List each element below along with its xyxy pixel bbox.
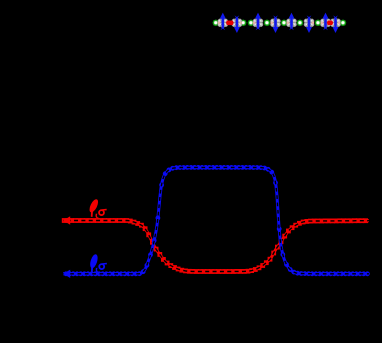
spin up arrow x=326 — [323, 13, 329, 31]
atom H green x=243 — [240, 20, 247, 27]
atomic spin chain illustration — [213, 13, 347, 33]
gray atom cluster x=309 — [304, 18, 314, 28]
black dashed overlay on red — [63, 221, 369, 272]
curve label rho_sigma (red, spin up density) — [88, 198, 107, 219]
red bond/arrow marker x=330 — [327, 21, 333, 26]
atom H green x=267 — [264, 20, 271, 27]
spin up arrow x=292 — [289, 13, 295, 31]
left arrowhead blue — [63, 270, 70, 278]
spin up arrow x=258 — [255, 13, 261, 31]
spin down arrow x=336 — [333, 15, 339, 33]
spin down arrow x=237 — [234, 15, 240, 33]
atom H green x=251 — [248, 20, 255, 27]
left arrowhead red — [63, 216, 70, 224]
gray atom cluster x=223 — [218, 18, 228, 28]
spin down arrow x=276 — [273, 15, 279, 33]
atom H green x=216 — [213, 20, 220, 27]
atom H green x=300 — [297, 20, 304, 27]
gray atom cluster x=336 — [330, 18, 340, 28]
gray atom cluster x=258 — [253, 18, 263, 28]
black dashed overlay on blue — [63, 167, 369, 273]
atom H green x=318 — [315, 20, 322, 27]
gray atom cluster x=292 — [286, 18, 296, 28]
red curve: spin-up density — [62, 216, 369, 274]
curve label rho_sigma (blue, spin down density) — [89, 253, 107, 273]
red bond/arrow marker x=230 — [226, 21, 234, 26]
gray atom cluster x=276 — [270, 18, 280, 28]
spin up arrow x=223 — [220, 13, 226, 31]
gray atom cluster x=326 — [320, 18, 330, 28]
atom H green x=343 — [340, 20, 347, 27]
blue curve: spin-down density — [63, 165, 370, 278]
gray atom cluster x=237 — [232, 18, 242, 28]
atom H green x=284 — [281, 20, 288, 27]
spin down arrow x=309 — [306, 15, 312, 33]
